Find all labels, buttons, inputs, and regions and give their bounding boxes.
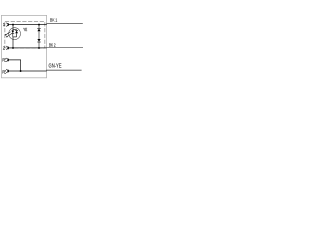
wire PE1 down to PE bus (8, 60, 20, 71)
LED top lead (12, 25, 14, 30)
pin 2 contact symbol (6, 46, 8, 50)
svg-text:PE: PE (2, 70, 6, 75)
node suppressor return on wire 2 (38, 47, 40, 49)
suppressor diode bottom (cathode bar down) (37, 39, 40, 42)
PE 2 contact symbol (6, 69, 8, 73)
node LED branch on wire 1 (12, 24, 14, 26)
LED light arrow 1 (6, 32, 11, 35)
Z-diode (right branch) (15, 29, 18, 31)
electronics module (dashed box) (5, 22, 45, 48)
LED light arrow 2 (7, 34, 12, 37)
svg-text:YE: YE (23, 27, 27, 32)
LED diode (left branch) (11, 31, 14, 34)
suppressor mid lead (38, 31, 40, 39)
wire PE to cable (GN-YE) (8, 70, 46, 72)
branch bridge bottom (13, 36, 17, 38)
branch bridge top (13, 29, 17, 31)
svg-text:PE: PE (2, 57, 6, 62)
suppressor diode top (cathode bar up) (37, 27, 40, 29)
svg-text:BK 1: BK 1 (50, 18, 57, 24)
connector housing outline (gray box) (1, 15, 46, 77)
suppressor top lead (38, 25, 40, 29)
node LED return on wire 2 (12, 47, 14, 49)
svg-text:BK 2: BK 2 (49, 42, 56, 48)
wire pin1 to cable (BK1) (8, 24, 46, 26)
pin 1 contact symbol (6, 23, 8, 27)
node PE junction (20, 70, 22, 72)
LED bottom lead (12, 37, 14, 48)
node suppressor branch on wire 1 (38, 24, 40, 26)
svg-text:1: 1 (3, 22, 6, 27)
suppressor bottom lead (38, 42, 40, 48)
svg-text:GN-YE: GN-YE (49, 64, 62, 70)
PE 1 contact symbol (6, 58, 8, 62)
LED indicator circle (9, 28, 21, 40)
wire pin2 to cable (BK2) (8, 47, 46, 49)
